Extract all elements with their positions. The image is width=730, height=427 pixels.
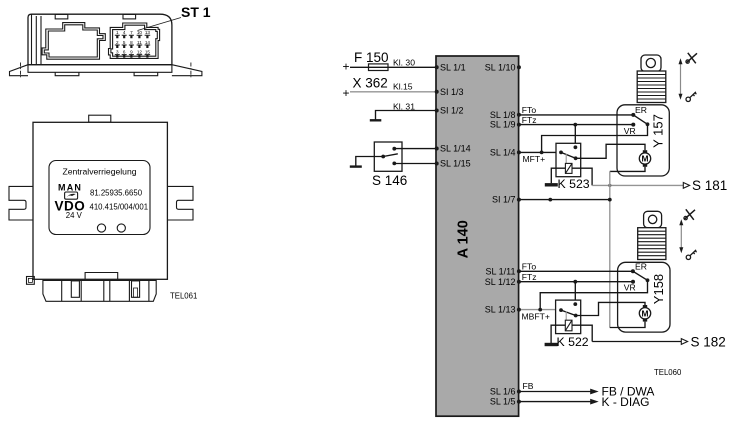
- motor Y157 terminal bottom: [643, 164, 647, 167]
- contact VR: [631, 123, 635, 127]
- node FTz lower junction: [573, 280, 577, 284]
- S146 contact lower: [392, 162, 396, 166]
- Y158 cap tab: [644, 211, 662, 227]
- svg-text:Kl.15: Kl.15: [393, 82, 413, 92]
- icon key Y157: [686, 92, 696, 102]
- svg-text:A 140: A 140: [456, 220, 472, 258]
- svg-text:SI 1/3: SI 1/3: [440, 87, 464, 97]
- svg-text:5: 5: [123, 40, 126, 45]
- svg-text:MAN: MAN: [58, 183, 82, 193]
- svg-text:SL 1/4: SL 1/4: [490, 148, 516, 158]
- Y158 lever pivot: [646, 278, 650, 282]
- housing top notch left: [55, 14, 68, 19]
- svg-text:ER: ER: [635, 262, 647, 272]
- ground K523: [545, 183, 558, 186]
- wire S182: [592, 341, 681, 343]
- bottom small tab left: [27, 277, 35, 285]
- icon key crossed Y157: [686, 53, 697, 64]
- ST1 pin underlines row3: [115, 54, 150, 56]
- Y157 switch lever: [633, 115, 647, 124]
- arrow K-DIAG: [590, 399, 599, 405]
- K523 contact left: [559, 151, 563, 155]
- pin SL 1/13: [517, 308, 521, 312]
- pin SL 1/9: [517, 123, 521, 127]
- svg-text:14: 14: [145, 40, 151, 45]
- base bar: [28, 65, 172, 73]
- node SI 1/7 to return: [608, 198, 612, 202]
- fuse F150 feed: [343, 50, 437, 74]
- wire pivot return to MFT+: [542, 124, 648, 152]
- node MBFT+ junction: [538, 308, 542, 312]
- wire Kl.30: [350, 66, 437, 68]
- wire FTz junction to K523 coil contact: [574, 125, 576, 148]
- unit outer box: [33, 122, 167, 279]
- svg-text:M: M: [642, 309, 649, 319]
- K522 lever: [561, 310, 576, 315]
- svg-text:Kl. 30: Kl. 30: [393, 58, 415, 68]
- pin SI 1/7: [517, 198, 521, 202]
- Y157 bellows: [637, 71, 666, 103]
- contact ER: [631, 113, 635, 117]
- wire S181 gray: [592, 184, 683, 186]
- S146 common contact: [381, 155, 385, 159]
- Y158 bellows: [638, 228, 666, 260]
- wire motor return: [610, 167, 645, 172]
- pin SL 1/8: [517, 113, 521, 117]
- svg-text:S 182: S 182: [691, 335, 726, 350]
- svg-text:6: 6: [123, 50, 126, 55]
- wire motor Y158 return: [610, 322, 645, 328]
- ground S146: [350, 165, 362, 167]
- wire FTz lower to VR: [519, 281, 633, 283]
- connector key rect left: [71, 281, 79, 297]
- housing top notch right: [123, 14, 136, 19]
- K522 contact left: [559, 308, 563, 312]
- Y157 cap hole: [646, 58, 655, 67]
- svg-text:13: 13: [145, 30, 151, 35]
- pin SL 1/5: [517, 400, 521, 404]
- node S181 crossing: [608, 184, 611, 187]
- svg-text:7: 7: [130, 30, 133, 35]
- motor Y158 terminal top: [643, 305, 647, 308]
- svg-text:Y 157: Y 157: [651, 114, 666, 148]
- svg-text:SI 1/2: SI 1/2: [440, 106, 464, 116]
- wire S146 to SL 1/15: [394, 163, 436, 165]
- wire Kl.15 gray: [350, 91, 437, 93]
- svg-text:SL 1/11: SL 1/11: [485, 266, 515, 276]
- svg-text:410.415/004/001: 410.415/004/001: [90, 203, 149, 212]
- K522 actuator link gray: [565, 312, 567, 321]
- lock direction arrow Y158: [680, 223, 682, 250]
- control unit top view box: [9, 115, 197, 301]
- ST1 pin underlines row1: [115, 34, 150, 36]
- plate hole left: [97, 224, 105, 232]
- right mounting bracket: [167, 186, 193, 220]
- svg-text:FTo: FTo: [522, 105, 537, 115]
- fuse F150 symbol: [369, 64, 389, 71]
- wire K523 coil to S181: [572, 168, 592, 185]
- svg-text:8: 8: [130, 40, 133, 45]
- svg-text:1: 1: [116, 30, 119, 35]
- pin SL 1/4: [517, 150, 521, 154]
- left mounting bracket: [9, 186, 33, 220]
- wire pivot return to MBFT+: [540, 280, 647, 309]
- wire Kl.31: [376, 111, 437, 120]
- Y157 bellows ribs: [637, 75, 666, 100]
- terminal Kl.31: [370, 102, 437, 121]
- relay K522 body: [556, 300, 581, 334]
- contact ER lower: [631, 269, 635, 273]
- svg-text:VR: VR: [624, 126, 636, 136]
- wire K522 pivot to motor: [576, 302, 645, 315]
- K523 pivot: [574, 156, 578, 160]
- svg-text:SL 1/1: SL 1/1: [440, 62, 466, 72]
- ground K522: [545, 343, 558, 346]
- svg-text:ST 1: ST 1: [181, 4, 211, 20]
- svg-text:11: 11: [137, 40, 142, 45]
- svg-text:X 362: X 362: [353, 76, 388, 91]
- Y158 body: [618, 262, 670, 332]
- svg-text:MFT+: MFT+: [523, 154, 546, 164]
- svg-text:K - DIAG: K - DIAG: [602, 395, 650, 409]
- Y158 bellows ribs: [638, 231, 666, 256]
- pin SL 1/6: [517, 390, 521, 394]
- icon key Y158: [686, 250, 696, 260]
- svg-text:15: 15: [145, 50, 151, 55]
- K522 pivot: [574, 314, 578, 318]
- motor Y157: [639, 153, 650, 164]
- svg-text:FTz: FTz: [522, 272, 537, 282]
- ST1 pin nubs row2: [116, 45, 148, 48]
- S146 body: [374, 142, 402, 171]
- wire MBFT+ gray: [519, 309, 561, 311]
- bottom edge bump: [85, 273, 118, 280]
- wire FTz to VR: [519, 124, 633, 126]
- svg-text:Zentralverriegelung: Zentralverriegelung: [62, 167, 136, 177]
- wire K522 coil to S182: [572, 325, 592, 341]
- base tab right: [134, 72, 158, 75]
- K523 coil diagonal: [565, 163, 572, 173]
- icon key crossed Y158: [684, 209, 695, 220]
- pin SL 1/14: [435, 147, 439, 151]
- ST1 pin underlines row2: [115, 44, 150, 46]
- svg-text:VR: VR: [624, 282, 636, 292]
- S146 contact upper: [392, 147, 396, 151]
- svg-text:Y158: Y158: [651, 274, 666, 304]
- svg-text:3: 3: [116, 50, 119, 55]
- svg-text:TEL061: TEL061: [170, 292, 197, 301]
- svg-text:FB: FB: [523, 381, 534, 391]
- base tab left: [55, 72, 79, 75]
- plate hole right: [117, 224, 125, 232]
- svg-text:SL 1/15: SL 1/15: [440, 159, 471, 169]
- K522 coil box: [565, 320, 572, 331]
- connector ST1 inner: [111, 25, 157, 56]
- wire S146 to SL 1/14: [394, 148, 436, 150]
- svg-text:FTo: FTo: [522, 261, 537, 271]
- control unit front view housing: [10, 4, 211, 79]
- S146 wire to ground: [356, 157, 383, 166]
- K523 actuator link gray: [565, 154, 567, 163]
- svg-text:9: 9: [130, 50, 133, 55]
- ST1 leader line: [138, 18, 182, 31]
- svg-text:12: 12: [137, 50, 143, 55]
- svg-text:ER: ER: [635, 105, 647, 115]
- pin SL 1/12: [517, 280, 521, 284]
- motor Y158: [639, 308, 650, 319]
- mounting wing right: [172, 65, 202, 76]
- ST1 pin nubs row1: [116, 36, 148, 39]
- wire FB: [519, 391, 592, 393]
- svg-text:S 181: S 181: [692, 178, 727, 193]
- wire FTz junction to K522 coil contact: [574, 282, 576, 304]
- K523 lever: [561, 152, 576, 158]
- svg-text:SL 1/13: SL 1/13: [485, 305, 516, 315]
- Y158 switch lever: [633, 271, 648, 280]
- motor Y157 terminal top: [643, 150, 647, 153]
- svg-text:10: 10: [137, 30, 143, 35]
- pin SI 1/2: [435, 109, 439, 113]
- switch S146: [350, 142, 437, 188]
- pin SL 1/1: [435, 65, 439, 69]
- connector ST1 outer: [109, 23, 160, 58]
- mounting wing left: [10, 65, 29, 76]
- left connector cavity outer: [42, 23, 105, 60]
- lower door actuator circuit: [519, 209, 726, 377]
- arrow S181: [683, 183, 689, 189]
- K523 contact top: [574, 145, 578, 149]
- svg-text:SL 1/6: SL 1/6: [490, 387, 516, 397]
- ground Kl.31: [370, 119, 382, 121]
- svg-text:MBFT+: MBFT+: [522, 311, 550, 321]
- svg-text:+: +: [343, 60, 350, 74]
- svg-text:K 522: K 522: [557, 335, 589, 349]
- wire FTo lower to ER: [519, 270, 633, 272]
- Y157 body: [617, 105, 669, 176]
- svg-text:S 146: S 146: [372, 173, 407, 188]
- ST1 pin field: [116, 30, 150, 54]
- svg-text:TEL060: TEL060: [654, 368, 682, 377]
- svg-text:SL 1/9: SL 1/9: [490, 120, 516, 130]
- motor Y158 terminal bottom: [643, 318, 647, 321]
- K522 contact top: [573, 302, 577, 306]
- wire FTo to ER: [519, 114, 633, 116]
- svg-text:FTz: FTz: [522, 115, 537, 125]
- MAN logo emblem: [65, 192, 78, 199]
- svg-text:SL 1/10: SL 1/10: [485, 62, 516, 72]
- ST1 pin nubs row3: [116, 55, 148, 58]
- arrow S182: [681, 339, 687, 345]
- pin SL 1/10: [517, 65, 521, 69]
- svg-text:SL 1/8: SL 1/8: [490, 110, 516, 120]
- svg-text:+: +: [343, 86, 350, 100]
- wire SI 1/7: [519, 199, 610, 201]
- bottom connector block: [43, 280, 156, 301]
- K522 coil diagonal: [565, 320, 572, 331]
- svg-text:4: 4: [123, 30, 126, 35]
- Y157 cap tab: [641, 55, 661, 72]
- svg-text:SL 1/12: SL 1/12: [485, 277, 516, 287]
- svg-text:F 150: F 150: [354, 50, 389, 65]
- wire K522 coil to ground: [551, 325, 565, 343]
- terminal X362 feed: [343, 76, 437, 101]
- K523 coil box: [565, 163, 572, 173]
- wire K-DIAG: [519, 401, 592, 403]
- connector dividers: [62, 280, 149, 301]
- wire K523 coil to ground: [551, 168, 565, 183]
- pin SI 1/3: [435, 90, 439, 94]
- pin SL 1/15: [435, 162, 439, 166]
- label plate: [49, 161, 150, 235]
- pin SL 1/11: [517, 269, 521, 273]
- control unit A140: [436, 56, 519, 416]
- svg-text:SL 1/5: SL 1/5: [490, 397, 516, 407]
- node SI 1/7 mid: [548, 198, 552, 202]
- svg-text:81.25935.6650: 81.25935.6650: [90, 189, 143, 198]
- left connector cavity inner: [44, 25, 103, 57]
- node MFT+ junction: [540, 151, 544, 155]
- svg-text:K 523: K 523: [558, 177, 590, 191]
- diagnostic outputs: [519, 381, 654, 409]
- wire K523 pivot to motor: [576, 144, 645, 158]
- Y157 lever pivot: [646, 122, 650, 126]
- svg-text:2: 2: [116, 40, 119, 45]
- svg-text:SI 1/7: SI 1/7: [492, 195, 516, 205]
- svg-text:SL 1/14: SL 1/14: [440, 144, 471, 154]
- svg-text:M: M: [642, 154, 649, 164]
- relay K523 body: [556, 143, 581, 176]
- svg-text:24 V: 24 V: [66, 211, 83, 220]
- wing right center dash-dot hole line: [190, 63, 192, 79]
- lock direction arrow Y157: [680, 62, 682, 96]
- contact VR lower: [631, 280, 635, 284]
- arrow FB: [590, 389, 599, 395]
- Y158 cap hole: [648, 215, 656, 223]
- node FTz junction: [573, 123, 577, 127]
- wire MFT+: [519, 151, 561, 153]
- wire common return gray vertical: [609, 171, 611, 327]
- unit top bump: [89, 115, 111, 122]
- connector key rect right: [132, 281, 140, 297]
- wing left center dash-dot hole line: [20, 63, 22, 79]
- upper door actuator circuit: [519, 53, 727, 328]
- S146 lever: [383, 154, 398, 157]
- housing left side panel lines: [32, 14, 42, 64]
